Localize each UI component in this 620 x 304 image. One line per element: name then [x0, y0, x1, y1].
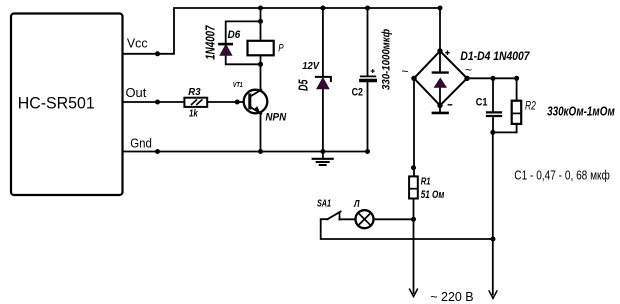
svg-text:VT1: VT1: [233, 82, 243, 89]
svg-text:Vcc: Vcc: [127, 36, 148, 51]
svg-text:NPN: NPN: [265, 111, 287, 123]
svg-text:~: ~: [402, 65, 409, 79]
svg-text:330-1000мкф: 330-1000мкф: [380, 29, 392, 90]
svg-text:Gnd: Gnd: [130, 135, 152, 150]
svg-text:1N4007: 1N4007: [203, 25, 218, 60]
svg-text:D6: D6: [228, 29, 241, 41]
svg-text:D1-D4 1N4007: D1-D4 1N4007: [460, 49, 530, 63]
svg-text:SA1: SA1: [317, 199, 331, 210]
svg-text:12V: 12V: [302, 61, 320, 72]
svg-text:Л: Л: [353, 199, 360, 210]
svg-text:HC-SR501: HC-SR501: [18, 93, 95, 112]
svg-text:~ 220 В: ~ 220 В: [430, 290, 473, 304]
svg-text:Out: Out: [126, 85, 147, 100]
svg-text:C1: C1: [476, 97, 488, 109]
svg-text:С1 - 0,47 - 0, 68 мкф: С1 - 0,47 - 0, 68 мкф: [514, 169, 610, 183]
svg-text:51 Ом: 51 Ом: [421, 189, 445, 201]
svg-text:R2: R2: [525, 100, 536, 113]
svg-text:330кОм-1мОм: 330кОм-1мОм: [547, 104, 615, 118]
svg-text:R3: R3: [188, 87, 201, 98]
svg-text:C2: C2: [352, 86, 363, 98]
svg-text:~: ~: [465, 63, 472, 77]
svg-text:1k: 1k: [189, 108, 198, 119]
svg-text:P: P: [278, 43, 284, 55]
svg-text:R1: R1: [421, 176, 431, 187]
svg-text:D5: D5: [296, 79, 311, 91]
